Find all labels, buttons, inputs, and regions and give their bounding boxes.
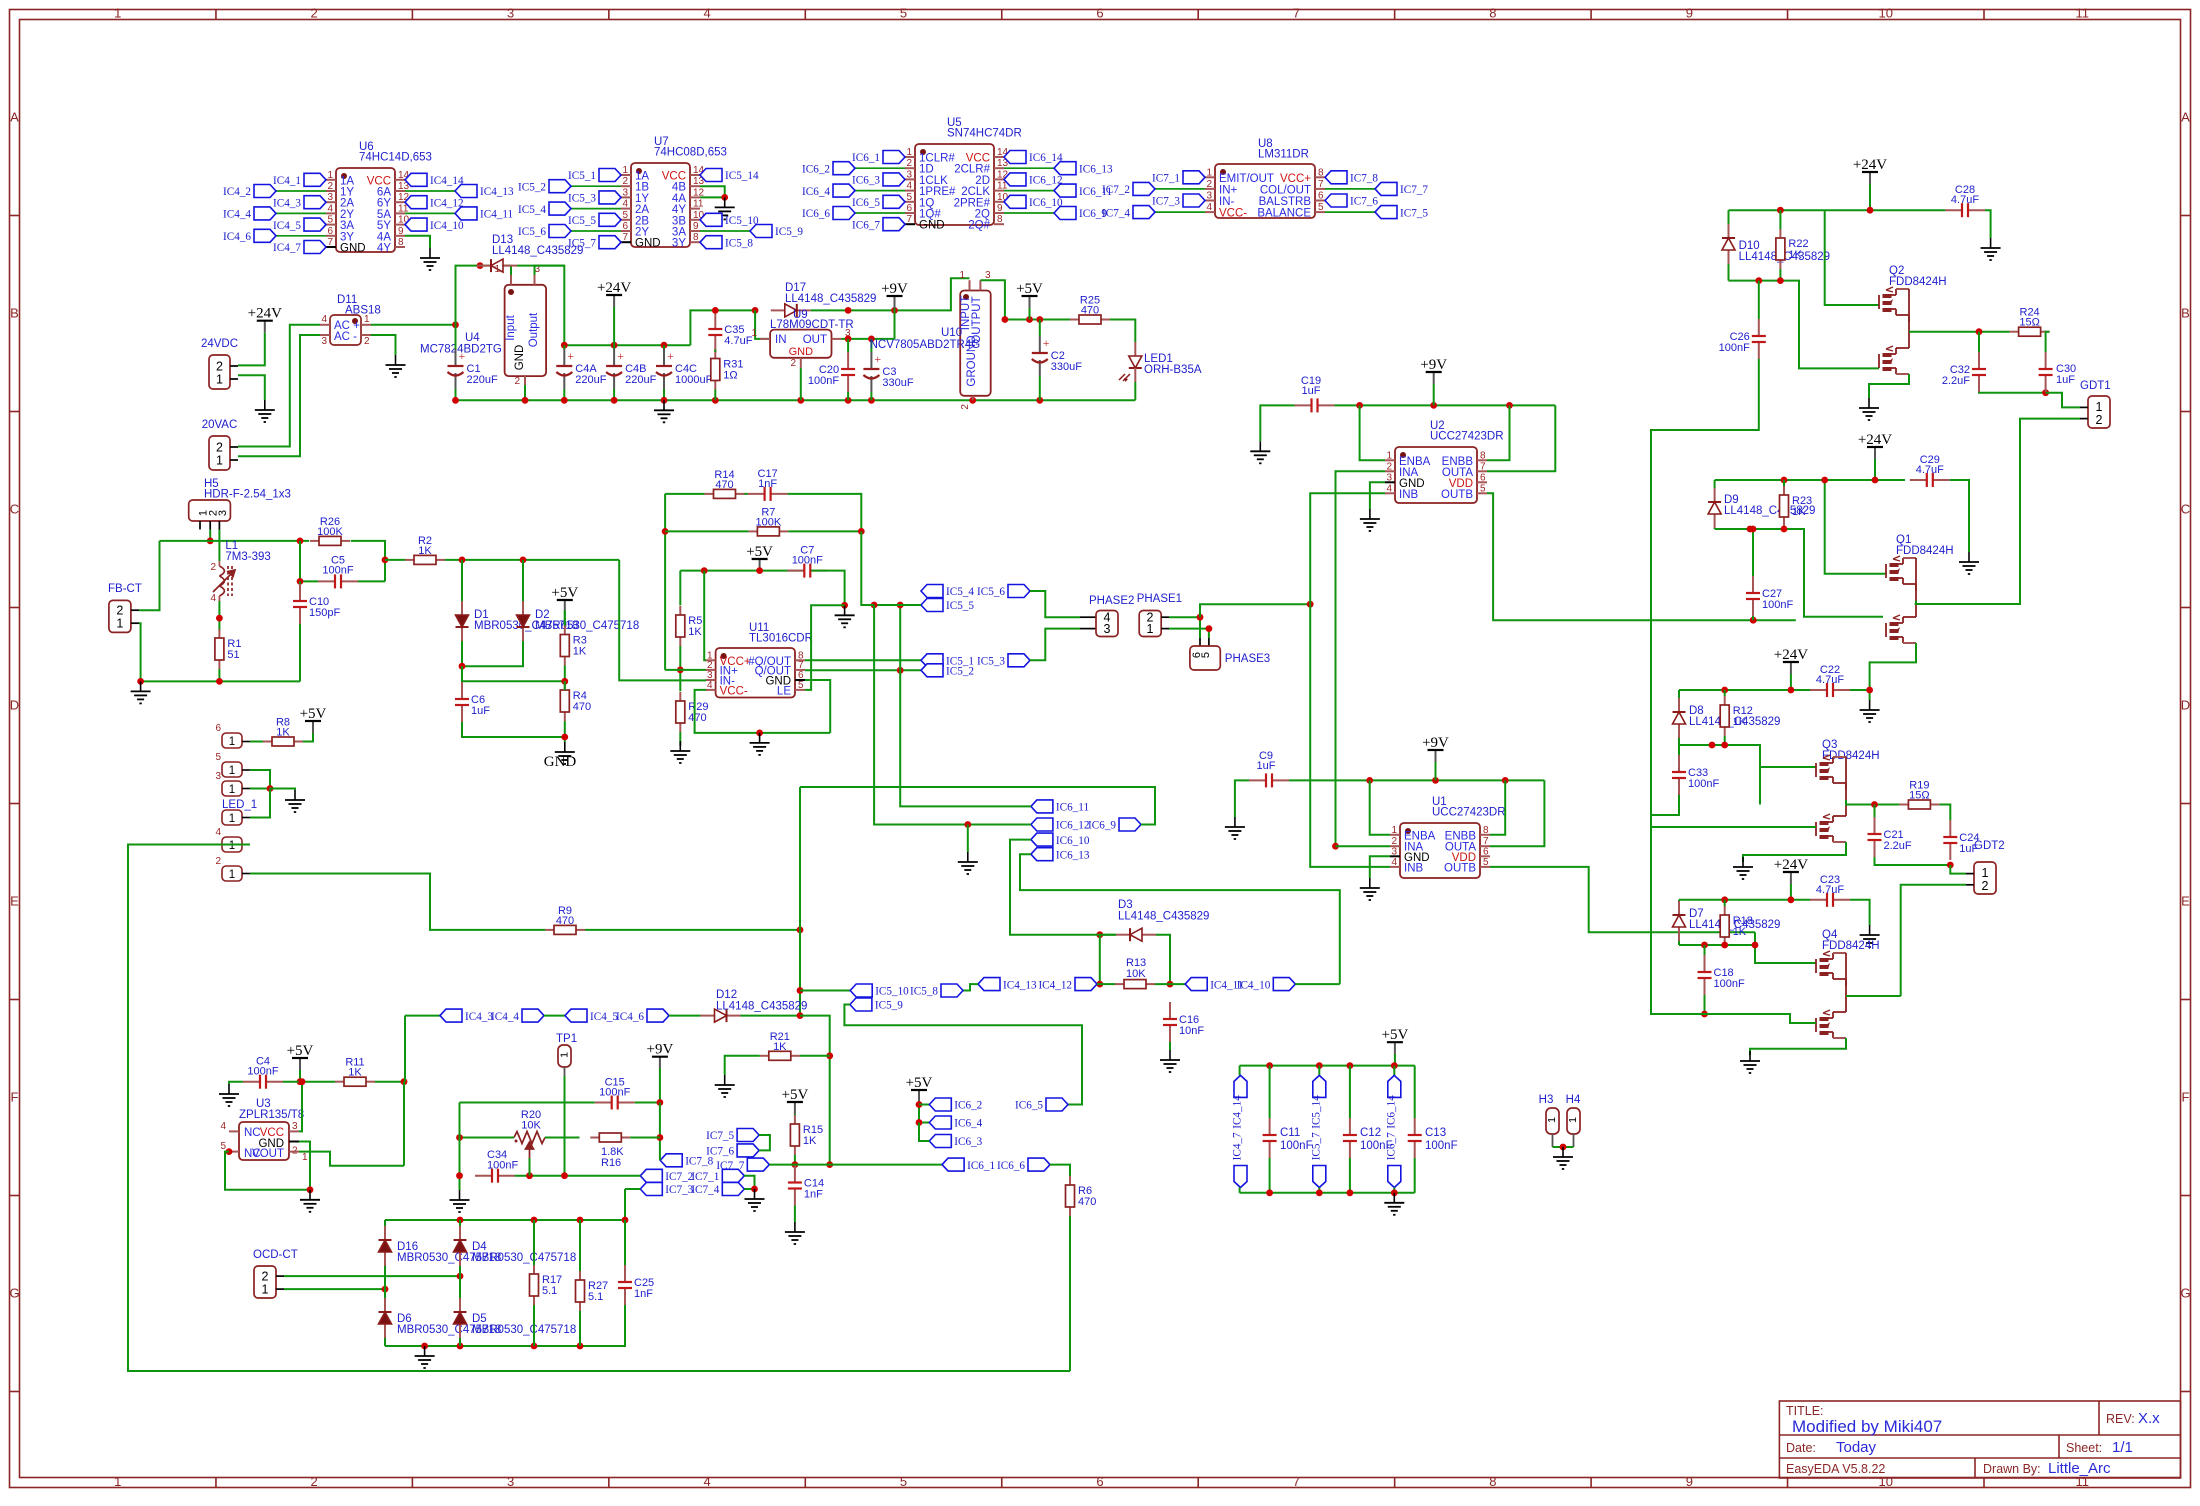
svg-text:7: 7 — [1293, 1474, 1300, 1489]
svg-text:470: 470 — [1078, 1196, 1096, 1208]
net flag IC5_10 (U7 pin10) — [700, 213, 722, 226]
svg-text:+24V: +24V — [1774, 857, 1808, 873]
connector pin 4/1 — [222, 837, 242, 852]
ground under Q4 — [1740, 1051, 1760, 1073]
svg-text:20VAC: 20VAC — [202, 419, 238, 431]
capacitor C22 4.7uF — [1810, 689, 1827, 691]
connector 24VDC — [209, 355, 230, 389]
svg-text:3: 3 — [321, 336, 327, 347]
diode D12 LL4148 — [701, 1015, 715, 1017]
svg-text:+24V: +24V — [1858, 432, 1892, 448]
svg-text:8: 8 — [1489, 6, 1496, 21]
diode D10 LL4148 — [1728, 224, 1730, 238]
svg-text:3: 3 — [215, 771, 221, 782]
wire node to D13 anode level — [456, 266, 481, 325]
wire column up to IC4_3 row — [404, 1016, 406, 1082]
svg-text:3: 3 — [507, 1474, 514, 1489]
ground at U6 pin9 — [420, 248, 440, 270]
svg-text:4: 4 — [703, 6, 710, 21]
wire Q1 output right — [1916, 601, 2020, 604]
power flag +9V (C15) — [659, 1057, 661, 1069]
svg-text:5Y: 5Y — [377, 220, 391, 232]
svg-text:5: 5 — [798, 680, 804, 691]
svg-text:1K: 1K — [1733, 926, 1747, 938]
svg-text:2: 2 — [311, 1474, 318, 1489]
resistor R25 470 — [1070, 319, 1079, 321]
wire C33 bottom left — [1651, 795, 1679, 815]
svg-text:220uF: 220uF — [467, 374, 498, 386]
svg-text:A: A — [2181, 110, 2190, 125]
svg-text:470: 470 — [688, 712, 706, 724]
svg-text:2CLK: 2CLK — [961, 186, 990, 198]
svg-text:4.7uF: 4.7uF — [1951, 194, 1979, 206]
svg-text:5: 5 — [900, 1474, 907, 1489]
wire C4 to ground — [229, 1082, 243, 1084]
svg-text:IC5_2: IC5_2 — [518, 181, 546, 193]
wire junction right to IC6_1 — [795, 1164, 942, 1166]
wire C16 to ground — [1169, 1042, 1171, 1050]
wire IC7_3 to C25 column — [625, 1188, 640, 1190]
svg-text:470: 470 — [556, 915, 574, 927]
net flags IC5_1..IC5_7 (U7 left) — [599, 169, 621, 182]
svg-text:GND: GND — [514, 345, 526, 371]
svg-text:+9V: +9V — [647, 1042, 674, 1058]
svg-text:+5V: +5V — [746, 544, 773, 560]
capacitor C16 10nF — [1169, 1002, 1171, 1019]
svg-text:H3: H3 — [1539, 1094, 1554, 1106]
wire OUTB down to Q-driver — [1487, 493, 1796, 620]
svg-text:Today: Today — [1836, 1439, 1877, 1456]
wire +24V to Q1 upper gate — [1825, 480, 1887, 574]
svg-text:4: 4 — [210, 593, 216, 604]
resistor R18 1K — [1724, 906, 1726, 915]
wire GDT1 pin2 long down to Q1 out — [1915, 419, 2080, 604]
capacitor C32 2.2uF — [1978, 352, 1980, 369]
wire U3 NC pin5 loop — [226, 1148, 233, 1155]
wire LED1 to ground rail — [1134, 382, 1136, 400]
wire D1/D2 bottoms to R3/R4 node — [461, 641, 463, 666]
wire IC6_9 up-left to R9 column — [800, 787, 1155, 825]
svg-text:1K: 1K — [688, 626, 702, 638]
wire IC7_7 to R15/C14 junction — [769, 1164, 795, 1166]
capacitor C23 4.7uF — [1810, 899, 1827, 901]
wire D11 pin2 to ground — [371, 335, 396, 355]
net flag IC5_8 (U7 pin8) — [700, 236, 722, 249]
svg-text:9: 9 — [1686, 6, 1693, 21]
svg-text:E: E — [10, 894, 19, 909]
svg-text:2: 2 — [1982, 879, 1989, 893]
wire column 404 down — [403, 1082, 405, 1166]
net flag IC6_3 — [929, 1135, 951, 1148]
capacitor C18 100nF — [1704, 955, 1706, 972]
wire C22 right to ground — [1850, 689, 1870, 691]
svg-text:IC5_10: IC5_10 — [875, 986, 909, 998]
row IC4_3..IC4_6 and D12 — [405, 1015, 440, 1017]
svg-text:1K: 1K — [773, 1041, 787, 1053]
bridge rectifier D11 ABS18 — [330, 315, 361, 345]
svg-text:5: 5 — [1483, 857, 1489, 868]
bridge top rail — [385, 1219, 625, 1221]
svg-text:IC4_10: IC4_10 — [1237, 979, 1271, 991]
cap bank top rail — [1240, 1065, 1415, 1067]
wire PHASE1 pin2 — [1169, 617, 1200, 638]
svg-text:1: 1 — [216, 454, 223, 468]
title block — [1779, 1401, 2180, 1478]
svg-text:2: 2 — [216, 441, 223, 455]
capacitor C6 1uF — [461, 682, 463, 699]
svg-text:REV:: REV: — [2106, 1412, 2135, 1426]
svg-text:1: 1 — [229, 736, 235, 748]
diode D7 LL4148 — [1678, 901, 1680, 915]
svg-text:IC6_7: IC6_7 — [1385, 1132, 1397, 1160]
svg-text:6: 6 — [622, 221, 628, 232]
svg-text:Little_Arc: Little_Arc — [2048, 1460, 2111, 1477]
svg-text:1: 1 — [751, 328, 757, 339]
svg-text:3: 3 — [292, 1121, 298, 1132]
resistor R15 1K — [794, 1115, 796, 1124]
+9V rail right of C9 — [1289, 779, 1544, 781]
resistor R26 100K — [310, 540, 319, 542]
capacitor C30 1uF — [2045, 352, 2047, 369]
svg-text:+: + — [617, 349, 624, 363]
wire U3 VCC up to +5V rail — [299, 1082, 302, 1132]
svg-text:8: 8 — [997, 214, 1003, 225]
svg-text:1K: 1K — [803, 1135, 817, 1147]
wire U1 OUTA from rail corner — [1490, 780, 1544, 846]
wire IC7_5 to IC7_6 join — [759, 1135, 770, 1150]
svg-text:5: 5 — [215, 752, 221, 763]
svg-text:INB: INB — [1399, 489, 1419, 501]
wire TP1 down — [564, 1076, 566, 1176]
left column of TP cluster — [459, 1103, 461, 1191]
svg-text:Date:: Date: — [1786, 1441, 1816, 1455]
vertical joining D3 row and R13 row — [1099, 935, 1101, 984]
net flags IC7_8..IC7_5 (U8 right) — [1325, 171, 1347, 184]
svg-text:220uF: 220uF — [625, 374, 656, 386]
wire R29 to ground — [679, 732, 681, 746]
capacitor C21 2.2uF — [1874, 817, 1876, 834]
wire C27 top to D9 rail — [1752, 529, 1754, 576]
svg-text:7: 7 — [327, 237, 333, 248]
wire U4 gnd to rail — [524, 385, 526, 400]
wire U9 gnd to rail — [800, 368, 802, 400]
svg-text:Output: Output — [528, 312, 540, 347]
svg-text:4B: 4B — [672, 182, 686, 194]
svg-text:3: 3 — [906, 169, 912, 180]
capacitor C2 330uF — [1039, 336, 1041, 353]
svg-text:10K: 10K — [1126, 968, 1146, 980]
svg-text:IC5_9: IC5_9 — [775, 226, 803, 238]
wire IC5_3 to PHASE2 pin3 — [1030, 629, 1080, 661]
svg-text:E: E — [2181, 894, 2190, 909]
wire +9V column down — [659, 1103, 661, 1161]
svg-text:IC6_14: IC6_14 — [1029, 152, 1063, 164]
net flag IC6_9 — [1119, 818, 1141, 831]
svg-text:1: 1 — [622, 165, 628, 176]
wire D3 anode to right corner down to R13 row — [1156, 935, 1170, 984]
svg-text:C13: C13 — [1425, 1127, 1446, 1139]
svg-text:4: 4 — [906, 181, 912, 192]
diode D9 LL4148 — [1714, 488, 1716, 502]
+5V rail over U11 — [759, 559, 761, 571]
svg-text:1: 1 — [906, 147, 912, 158]
wire D11 pin1 to C1/U4 node — [371, 324, 456, 326]
svg-text:IC4_5: IC4_5 — [273, 220, 301, 232]
svg-text:100nF: 100nF — [1714, 978, 1745, 990]
svg-text:IC5_5: IC5_5 — [946, 600, 974, 612]
wire IC5_9 down-right to IC6_5 net — [844, 1005, 1082, 1105]
svg-text:D: D — [10, 698, 19, 713]
svg-text:SN74HC74DR: SN74HC74DR — [947, 128, 1022, 140]
svg-text:IC4_5: IC4_5 — [590, 1011, 618, 1023]
svg-text:+9V: +9V — [1422, 735, 1449, 751]
IC U5 SN74HC74DR — [915, 144, 994, 225]
wire D9/R23 bottom rail — [1715, 529, 1883, 617]
capacitor C25 1nF — [624, 1265, 626, 1282]
svg-text:5: 5 — [327, 215, 333, 226]
svg-text:2Y: 2Y — [635, 227, 649, 239]
wire U3 VOUT to right — [299, 1152, 404, 1166]
net flag IC5_9 — [850, 998, 872, 1011]
svg-text:100nF: 100nF — [247, 1066, 278, 1078]
svg-text:2PRE#: 2PRE# — [954, 197, 991, 209]
svg-text:HDR-F-2.54_1x3: HDR-F-2.54_1x3 — [204, 489, 291, 501]
svg-text:C: C — [10, 502, 19, 517]
svg-text:IC7_4: IC7_4 — [691, 1184, 719, 1196]
wire R25 to LED1 — [1110, 320, 1135, 343]
net flag IC6_10 — [1031, 833, 1053, 846]
diode D16 MBR0530 — [384, 1226, 386, 1240]
wire IC6_10 down to D3 row — [1010, 840, 1116, 935]
connector FB-CT — [109, 600, 131, 632]
wire OCD pin1 to D16 column — [284, 1288, 385, 1290]
svg-text:1uF: 1uF — [471, 705, 490, 717]
svg-text:2: 2 — [790, 358, 796, 369]
svg-text:5.1: 5.1 — [542, 1285, 557, 1297]
svg-text:1K: 1K — [573, 646, 587, 658]
ground at U1 — [1360, 878, 1380, 900]
resistor R29 470 — [679, 692, 681, 701]
resistor R6 470 — [1069, 1176, 1071, 1185]
wire OCD pin2 to D4 column — [284, 1275, 460, 1277]
svg-text:1uF: 1uF — [2056, 374, 2075, 386]
svg-text:11: 11 — [693, 199, 704, 210]
net flag IC6_11 — [1031, 800, 1053, 813]
svg-text:IC6_3: IC6_3 — [954, 1136, 982, 1148]
svg-text:10: 10 — [1879, 1474, 1893, 1489]
svg-text:EMIT/OUT: EMIT/OUT — [1219, 173, 1274, 185]
IC U1 UCC27423DR — [1400, 823, 1480, 878]
IC7_2 row flags — [640, 1169, 662, 1182]
svg-text:MBR0530_C475718: MBR0530_C475718 — [472, 1324, 576, 1336]
ground under Q2 — [1859, 398, 1879, 420]
wire Q2 lower source to ground — [1869, 374, 1909, 398]
svg-text:IN: IN — [775, 334, 787, 346]
LED1 ORH-B35A — [1134, 342, 1136, 356]
capacitor C35 4.7uF — [714, 312, 716, 329]
regulator U4 MC7824BD2TG — [505, 285, 546, 376]
svg-text:6: 6 — [1096, 1474, 1103, 1489]
svg-text:D3: D3 — [1118, 899, 1133, 911]
wire Q3 lower gate — [1651, 815, 1816, 827]
svg-text:3: 3 — [1104, 622, 1111, 636]
svg-text:IC7_2: IC7_2 — [1102, 184, 1130, 196]
wire LED_1 to ground — [250, 789, 270, 818]
svg-text:IC6_5: IC6_5 — [852, 197, 880, 209]
wire IC7_4 to ground — [744, 1188, 754, 1190]
svg-text:1: 1 — [2096, 400, 2103, 414]
svg-text:6A: 6A — [377, 187, 391, 199]
svg-text:INB: INB — [1404, 862, 1424, 874]
svg-text:2: 2 — [960, 404, 971, 410]
svg-text:3: 3 — [327, 192, 333, 203]
power flag +9V (U2) — [1433, 372, 1435, 384]
net flag IC6_5 — [1046, 1098, 1068, 1111]
svg-text:+5V: +5V — [782, 1087, 809, 1103]
diode D6 MBR0530 — [384, 1298, 386, 1312]
svg-text:IC7_7: IC7_7 — [1400, 184, 1428, 196]
svg-text:4: 4 — [321, 314, 327, 325]
net flag IC4_14 (vertical) — [1239, 1066, 1241, 1076]
svg-text:2A: 2A — [635, 204, 649, 216]
svg-text:C: C — [2181, 502, 2190, 517]
wire pin5 join — [250, 770, 270, 788]
svg-text:1Y: 1Y — [635, 193, 649, 205]
svg-text:1K: 1K — [276, 727, 290, 739]
svg-text:4Y: 4Y — [377, 243, 391, 255]
svg-text:2: 2 — [364, 336, 370, 347]
svg-text:1: 1 — [116, 617, 123, 631]
IC U11 TL3016CDR — [716, 648, 795, 698]
svg-text:4: 4 — [703, 1474, 710, 1489]
svg-text:4Y: 4Y — [672, 204, 686, 216]
svg-text:GDT1: GDT1 — [2080, 380, 2111, 392]
wire D3 cathode to left junction — [1100, 934, 1116, 936]
svg-text:+: + — [1043, 336, 1050, 350]
resistor R14 470 — [705, 493, 714, 495]
svg-text:6: 6 — [1318, 191, 1324, 202]
capacitor C19 1uF — [1295, 404, 1312, 406]
svg-text:470: 470 — [573, 701, 591, 713]
diode D8 LL4148 — [1678, 698, 1680, 712]
svg-text:FDD8424H: FDD8424H — [1822, 940, 1880, 952]
capacitor C13 100nF — [1414, 1066, 1416, 1118]
svg-text:1A: 1A — [340, 175, 354, 187]
svg-text:G: G — [9, 1286, 19, 1301]
svg-text:2: 2 — [116, 604, 123, 618]
resistor R13 10K — [1115, 983, 1124, 985]
svg-text:OUTB: OUTB — [1444, 862, 1476, 874]
regulator U9 L78M09CDT-TR — [770, 330, 831, 358]
ground at C28 — [1981, 238, 2001, 260]
svg-text:IC4_3: IC4_3 — [465, 1011, 493, 1023]
ground at U7 pins 12/13 — [715, 197, 735, 219]
svg-text:74HC08D,653: 74HC08D,653 — [654, 147, 727, 159]
svg-text:IC7_1: IC7_1 — [1152, 173, 1180, 185]
svg-text:5: 5 — [1480, 483, 1486, 494]
svg-text:7: 7 — [622, 232, 628, 243]
ground under U3 — [300, 1190, 320, 1212]
ground under C7 — [835, 605, 855, 627]
wire U1 ENBA from rail — [1370, 780, 1390, 834]
svg-text:+24V: +24V — [1853, 157, 1887, 173]
ground under C14 — [785, 1222, 805, 1244]
svg-text:+5V: +5V — [1016, 281, 1043, 297]
wire ENBA from +9V rail — [1360, 405, 1385, 460]
svg-text:1CLK: 1CLK — [919, 175, 948, 187]
net flags IC4_1..IC4_7 (U6 left) — [304, 173, 326, 186]
svg-text:1: 1 — [262, 1283, 269, 1297]
svg-text:A: A — [10, 110, 19, 125]
wire R7 path — [664, 494, 666, 670]
net flag IC5_6 — [1008, 585, 1030, 598]
power flag +24V (Q2) — [1869, 172, 1871, 184]
wire Q3 lower source down — [1743, 842, 1846, 862]
svg-text:+: + — [874, 352, 881, 366]
svg-text:LL4148_C435829: LL4148_C435829 — [492, 245, 583, 257]
svg-text:IC6_4: IC6_4 — [954, 1118, 982, 1130]
svg-text:1uF: 1uF — [1302, 385, 1321, 397]
svg-text:100nF: 100nF — [487, 1160, 518, 1172]
net flag IC6_4 — [919, 1122, 929, 1124]
svg-text:1: 1 — [216, 373, 223, 387]
power flag +5V (C4) — [299, 1058, 301, 1070]
svg-text:IC6_4: IC6_4 — [802, 186, 830, 198]
wire H5 pin3 to L1 — [218, 530, 220, 562]
svg-text:GND: GND — [544, 754, 577, 770]
wire 24VDC pin1 to ground — [238, 375, 265, 400]
wire C23 right to ground — [1850, 900, 1870, 925]
svg-text:IC7_5: IC7_5 — [706, 1130, 734, 1142]
power flag +9V (U9 out) — [894, 296, 896, 308]
power flag +24V (Q3) — [1790, 662, 1792, 674]
connector H5 HDR-F-2.54_1x3 — [189, 500, 231, 521]
net flag IC6_14 (vertical) — [1393, 1066, 1395, 1076]
net flag IC6_12 — [1031, 818, 1053, 831]
svg-text:7: 7 — [1480, 461, 1486, 472]
svg-text:330uF: 330uF — [882, 377, 913, 389]
net flag IC6_7 (vertical) — [1388, 1166, 1401, 1188]
wire Q4 lower source down to ground — [1750, 1038, 1846, 1055]
svg-text:1D: 1D — [919, 164, 934, 176]
svg-text:2: 2 — [2096, 413, 2103, 427]
svg-text:51: 51 — [227, 649, 239, 661]
ground tap on IC6_12 wire — [967, 825, 969, 853]
svg-text:2.2uF: 2.2uF — [1942, 375, 1970, 387]
svg-text:+5V: +5V — [551, 585, 578, 601]
wire INB net continues down — [1310, 604, 1390, 867]
wire PHASE up to INB line — [1200, 604, 1310, 617]
capacitor C1 220uF — [455, 349, 457, 366]
svg-text:9: 9 — [1686, 1474, 1693, 1489]
wire Q4 output right — [1846, 995, 1901, 997]
svg-text:IC4_6: IC4_6 — [616, 1011, 644, 1023]
svg-text:1B: 1B — [635, 182, 649, 194]
svg-text:IC6_10: IC6_10 — [1029, 197, 1063, 209]
ground at C4 — [219, 1084, 239, 1106]
svg-text:2: 2 — [622, 176, 628, 187]
svg-text:4.7uF: 4.7uF — [1816, 674, 1844, 686]
svg-text:VCC-: VCC- — [1219, 208, 1247, 220]
svg-text:1: 1 — [1147, 622, 1154, 636]
wire R21 right to column — [800, 1055, 830, 1057]
svg-text:IC4_3: IC4_3 — [273, 197, 301, 209]
svg-text:1: 1 — [302, 1152, 308, 1163]
wire IC4_11 flags row — [1185, 978, 1207, 991]
svg-text:1Q#: 1Q# — [919, 209, 941, 221]
ground under Q1/C22 — [1860, 700, 1880, 722]
wire Q3 output to R19 — [1846, 800, 1899, 805]
